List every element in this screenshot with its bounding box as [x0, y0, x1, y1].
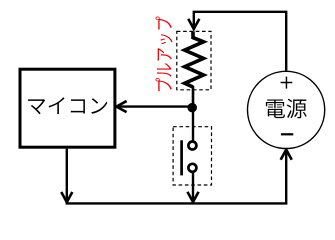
microcontroller box (マイコン)	[20, 69, 115, 147]
arrowhead: up into power supply minus terminal	[281, 150, 292, 160]
arrowhead: down from switch into bottom wire	[187, 192, 198, 202]
wire: top feed from power to pull-up resistor	[194, 12, 286, 71]
minus terminal symbol	[281, 133, 293, 135]
plus terminal symbol	[281, 77, 293, 89]
junction node dot	[187, 103, 197, 113]
resistor R (pull-up) zigzag	[185, 31, 204, 87]
arrowhead: current into resistor (down)	[188, 19, 199, 29]
arrowhead: into microcontroller (left)	[116, 101, 126, 112]
power supply circle (電源)	[248, 71, 325, 148]
switch top contact circle	[188, 142, 196, 150]
wire: node to microcontroller input	[116, 105, 193, 107]
dashed box around switch	[173, 127, 211, 185]
wire: junction down to switch top contact	[192, 108, 194, 141]
wire: bottom return path (microcontroller / switch to power minus)	[67, 149, 286, 204]
arrowhead: down into bottom wire from microcontroller	[61, 192, 72, 202]
label マイコン	[28, 99, 45, 114]
wire: switch bottom to ground wire with arrow	[192, 172, 194, 201]
switch bottom contact circle	[188, 164, 196, 172]
label プルアップ (red, rotated, narrow kana)	[155, 16, 172, 91]
switch actuator bar	[180, 140, 183, 175]
wire: resistor bottom to junction node	[192, 86, 195, 108]
dashed box around pull-up resistor	[177, 31, 211, 89]
label 電源	[266, 99, 285, 118]
